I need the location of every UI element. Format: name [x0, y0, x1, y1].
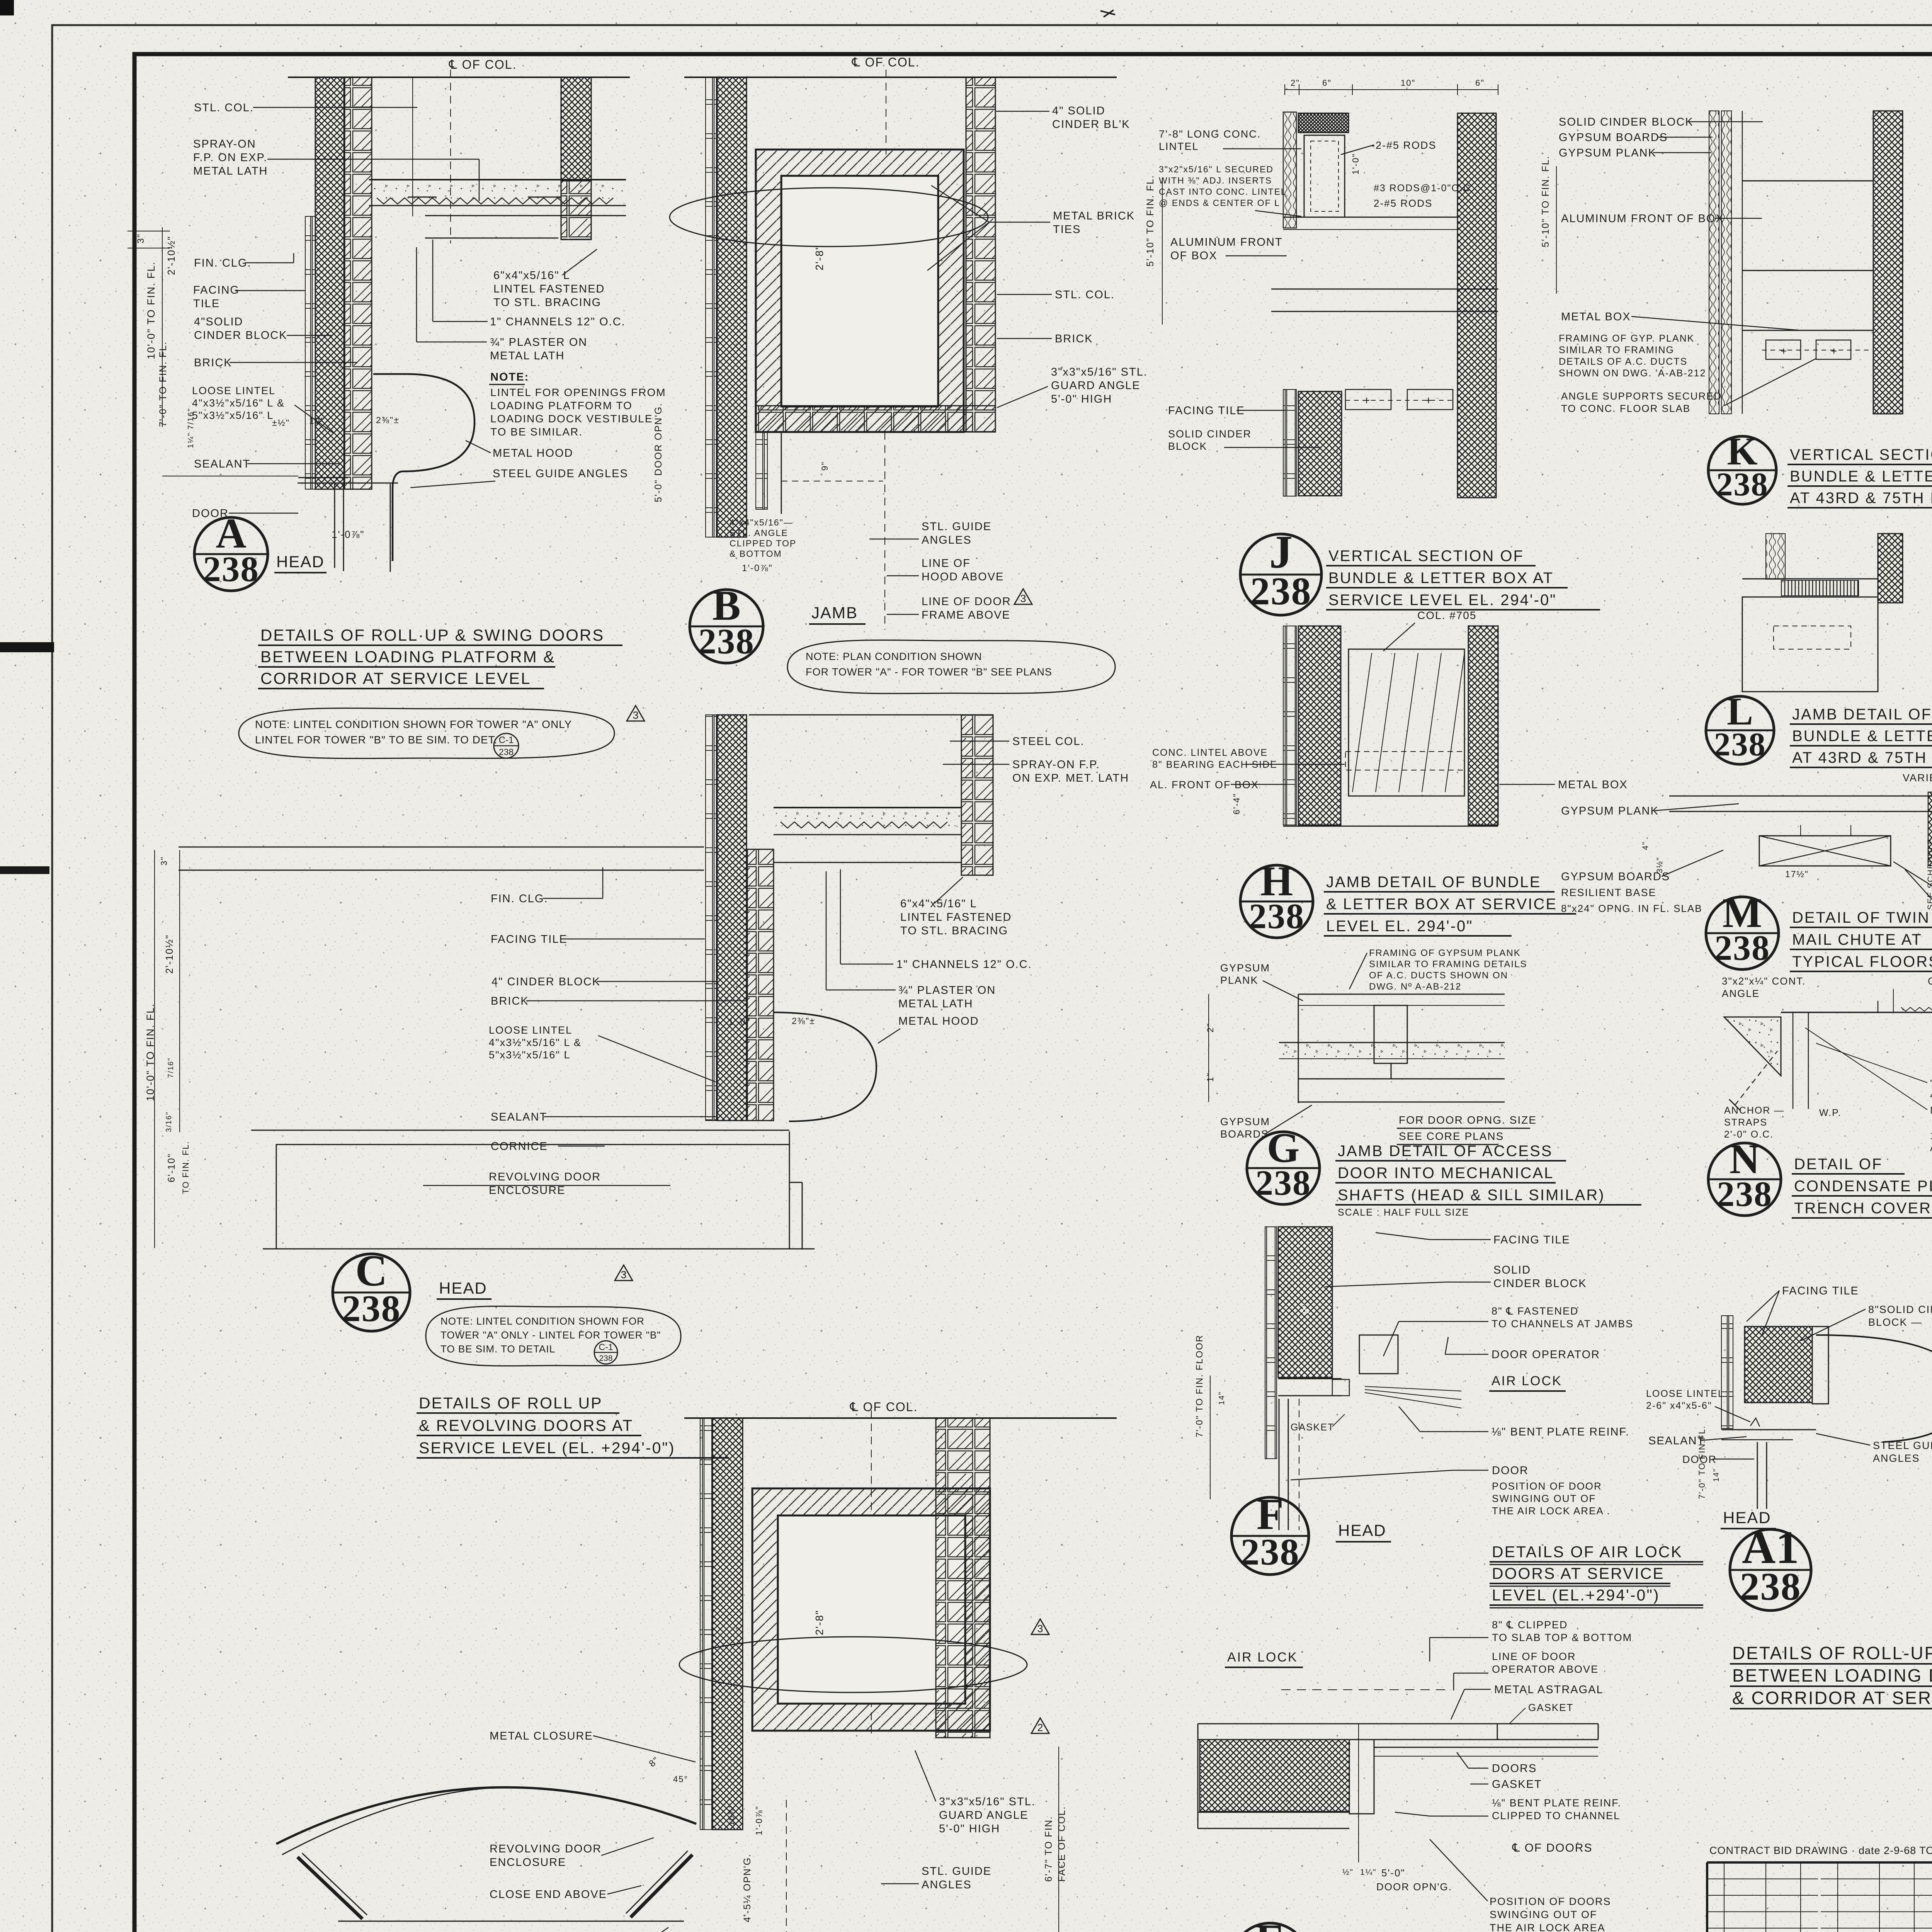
svg-text:3½": 3½" [1655, 857, 1664, 873]
svg-text:238: 238 [342, 1288, 401, 1330]
svg-text:℄ OF COL.: ℄ OF COL. [850, 1400, 918, 1414]
svg-text:NOTE: PLAN CONDITION SHOWN: NOTE: PLAN CONDITION SHOWN [806, 651, 982, 662]
svg-text:14": 14" [1218, 1391, 1226, 1405]
svg-text:5'-0" HIGH: 5'-0" HIGH [939, 1823, 1000, 1835]
svg-text:TO STL. BRACING: TO STL. BRACING [493, 296, 601, 309]
svg-text:238: 238 [1740, 1565, 1801, 1609]
svg-text:OF A.C. DUCTS SHOWN ON: OF A.C. DUCTS SHOWN ON [1369, 970, 1508, 981]
svg-text:SWINGING OUT OF: SWINGING OUT OF [1490, 1909, 1597, 1920]
svg-text:FOR TOWER "A" - FOR TOWER "B": FOR TOWER "A" - FOR TOWER "B" SEE PLANS [806, 666, 1052, 678]
svg-text:6": 6" [1322, 78, 1332, 88]
svg-text:LINTEL FOR TOWER "B" TO BE SIM: LINTEL FOR TOWER "B" TO BE SIM. TO DET. [255, 734, 497, 746]
svg-text:238: 238 [1249, 896, 1304, 936]
svg-text:DOOR OPERATOR: DOOR OPERATOR [1492, 1349, 1600, 1361]
svg-text:GUARD ANGLE: GUARD ANGLE [1051, 379, 1141, 392]
svg-text:3: 3 [1037, 1623, 1043, 1634]
svg-text:⅛" BENT PLATE REINF.: ⅛" BENT PLATE REINF. [1492, 1426, 1629, 1438]
svg-text:SEE SCHEDULE: SEE SCHEDULE [1926, 838, 1932, 910]
svg-text:TOWER "A" ONLY - LINTEL FOR TO: TOWER "A" ONLY - LINTEL FOR TOWER "B" [440, 1329, 661, 1341]
svg-text:FRAME ABOVE: FRAME ABOVE [922, 609, 1010, 621]
svg-text:W.P.: W.P. [1819, 1107, 1842, 1118]
svg-text:LINTEL: LINTEL [1159, 141, 1199, 152]
svg-text:JAMB DETAIL OF: JAMB DETAIL OF [1792, 706, 1932, 723]
svg-text:SOLID: SOLID [1493, 1264, 1531, 1276]
svg-text:7'-8" LONG CONC.: 7'-8" LONG CONC. [1159, 128, 1261, 140]
svg-text:DETAIL OF: DETAIL OF [1794, 1156, 1883, 1173]
svg-text:7'-0" TO FIN. FL.: 7'-0" TO FIN. FL. [158, 341, 168, 427]
svg-text:+: + [1831, 345, 1838, 357]
svg-text:CINDER BLOCK: CINDER BLOCK [1493, 1277, 1587, 1290]
svg-text:10'-0" TO FIN. FL.: 10'-0" TO FIN. FL. [145, 261, 157, 359]
svg-text:NOTE: LINTEL CONDITION SHOWN F: NOTE: LINTEL CONDITION SHOWN FOR TOWER "… [255, 718, 572, 730]
svg-text:⅛" BENT PLATE REINF.: ⅛" BENT PLATE REINF. [1492, 1797, 1621, 1809]
svg-text:TO BE SIM. TO DETAIL: TO BE SIM. TO DETAIL [440, 1343, 555, 1355]
svg-text:14": 14" [1712, 1468, 1721, 1482]
svg-text:FIN. CLG.: FIN. CLG. [194, 257, 252, 269]
svg-text:4'-0" O.C.: 4'-0" O.C. [1930, 1090, 1932, 1101]
svg-text:AIR LOCK: AIR LOCK [1227, 1650, 1298, 1665]
svg-text:FACING TILE: FACING TILE [1168, 405, 1245, 417]
svg-text:METAL HOOD: METAL HOOD [898, 1015, 979, 1027]
svg-text:3"x3"x5/16" STL.: 3"x3"x5/16" STL. [1051, 366, 1148, 378]
svg-text:SERVICE LEVEL (EL. +294'-0"): SERVICE LEVEL (EL. +294'-0") [419, 1439, 675, 1457]
svg-text:6": 6" [1475, 78, 1485, 88]
svg-text:4'-5¼ OPN'G.: 4'-5¼ OPN'G. [742, 1854, 753, 1922]
svg-text:SPRAY-ON F.P.: SPRAY-ON F.P. [1012, 759, 1100, 771]
svg-text:GYPSUM: GYPSUM [1220, 1116, 1270, 1128]
svg-text:SHOWN ON DWG. 'A-AB-212: SHOWN ON DWG. 'A-AB-212 [1559, 368, 1706, 379]
svg-text:RESILIENT BASE: RESILIENT BASE [1561, 887, 1656, 898]
svg-text:DOOR INTO MECHANICAL: DOOR INTO MECHANICAL [1338, 1165, 1554, 1182]
svg-text:CONTRACT BID DRAWING · da: CONTRACT BID DRAWING · date 2-9-68 TOWER… [1709, 1845, 1932, 1856]
svg-text:BLOCK: BLOCK [1168, 440, 1207, 452]
svg-text:STL. COL.: STL. COL. [194, 102, 254, 114]
svg-text:7'-0" TO FIN. FLOOR: 7'-0" TO FIN. FLOOR [1194, 1335, 1205, 1437]
svg-text:LOOSE LINTEL: LOOSE LINTEL [1646, 1388, 1724, 1399]
svg-text:1'-0⅞": 1'-0⅞" [742, 563, 773, 573]
svg-text:C-1: C-1 [499, 735, 514, 745]
svg-text:ANGLE: ANGLE [1722, 988, 1760, 999]
svg-text:STRAPS: STRAPS [1724, 1117, 1767, 1128]
svg-text:ANGLE SUPPORTS SECURED: ANGLE SUPPORTS SECURED [1561, 390, 1722, 402]
svg-text:GASKET: GASKET [1291, 1422, 1334, 1433]
svg-text:JAMB DETAIL OF BUNDLE: JAMB DETAIL OF BUNDLE [1326, 874, 1541, 891]
svg-text:238: 238 [1250, 570, 1312, 613]
svg-text:1'-0": 1'-0" [728, 1017, 750, 1027]
svg-text:STL. COL.: STL. COL. [1055, 289, 1115, 301]
svg-text:4"x3½"x5/16" L &: 4"x3½"x5/16" L & [489, 1037, 582, 1048]
svg-text:CLOSE END ABOVE: CLOSE END ABOVE [490, 1888, 607, 1901]
svg-text:3: 3 [633, 709, 638, 721]
svg-text:TO BE SIMILAR.: TO BE SIMILAR. [490, 426, 583, 438]
svg-text:238: 238 [1255, 1163, 1311, 1202]
svg-text:4": 4" [1641, 841, 1650, 850]
svg-text:BETWEEN LOADING PLATFORM &: BETWEEN LOADING PLATFORM & [260, 648, 555, 666]
svg-text:METAL LATH: METAL LATH [490, 350, 565, 362]
svg-text:LINTEL FASTENED: LINTEL FASTENED [493, 283, 605, 295]
svg-text:VERTICAL SECTION OF: VERTICAL SECTION OF [1328, 548, 1524, 565]
svg-text:℄ OF DOORS: ℄ OF DOORS [1512, 1842, 1593, 1854]
svg-text:METAL BOX: METAL BOX [1561, 311, 1631, 323]
svg-text:10¾": 10¾" [727, 1804, 736, 1826]
svg-text:METAL LATH: METAL LATH [898, 998, 973, 1010]
svg-text:SOLID CINDER: SOLID CINDER [1168, 428, 1252, 440]
svg-text:GYPSUM PLANK: GYPSUM PLANK [1561, 805, 1659, 817]
svg-text:SEALANT: SEALANT [1648, 1435, 1705, 1447]
svg-text:BRICK: BRICK [491, 995, 529, 1007]
svg-text:OPERATOR ABOVE: OPERATOR ABOVE [1492, 1663, 1599, 1675]
svg-text:2'-8": 2'-8" [813, 245, 825, 270]
svg-text:HEAD: HEAD [439, 1279, 487, 1297]
svg-text:REVOLVING DOOR: REVOLVING DOOR [490, 1843, 602, 1855]
svg-text:HEAD: HEAD [1338, 1521, 1386, 1539]
svg-text:METAL CLOSURE: METAL CLOSURE [490, 1730, 593, 1742]
svg-text:LOOSE LINTEL: LOOSE LINTEL [192, 385, 276, 396]
svg-text:BETWEEN LOADING DOCK VESTIBULE: BETWEEN LOADING DOCK VESTIBULE [1732, 1665, 1932, 1685]
svg-text:TO SLAB TOP & BOTTOM: TO SLAB TOP & BOTTOM [1492, 1632, 1632, 1643]
svg-text:¾" PLASTER ON: ¾" PLASTER ON [898, 984, 996, 997]
svg-text:DOORS AT SERVICE: DOORS AT SERVICE [1492, 1565, 1665, 1582]
svg-text:FRAMING OF GYPSUM PLANK: FRAMING OF GYPSUM PLANK [1369, 948, 1521, 958]
svg-text:FACING TILE: FACING TILE [1493, 1234, 1570, 1246]
svg-text:4"SOLID: 4"SOLID [194, 316, 243, 328]
svg-text:3/16": 3/16" [165, 1111, 173, 1132]
svg-text:2-#5 RODS: 2-#5 RODS [1374, 197, 1432, 209]
svg-text:9": 9" [820, 461, 830, 471]
svg-text:FIN. CLG.: FIN. CLG. [491, 893, 548, 905]
svg-text:5"x3½"x5/16" L: 5"x3½"x5/16" L [489, 1049, 570, 1061]
svg-text:TYPICAL FLOORS: TYPICAL FLOORS [1792, 953, 1932, 970]
svg-text:WITH ⅜" ADJ. INSERTS: WITH ⅜" ADJ. INSERTS [1159, 175, 1272, 185]
svg-text:4"x4"x5/16"—: 4"x4"x5/16"— [730, 517, 793, 527]
svg-text:C-1: C-1 [599, 1342, 613, 1352]
svg-text:& CORRIDOR AT SERVICE LEVEL: & CORRIDOR AT SERVICE LEVEL [1732, 1688, 1932, 1708]
svg-text:ANGLES: ANGLES [922, 1879, 972, 1891]
svg-text:1" CHANNELS 12" O.C.: 1" CHANNELS 12" O.C. [490, 316, 626, 328]
svg-text:VERTICAL SECTION OF: VERTICAL SECTION OF [1790, 446, 1932, 463]
svg-text:3: 3 [621, 1269, 626, 1281]
svg-text:2'-10½": 2'-10½" [163, 934, 175, 974]
svg-text:7/16": 7/16" [167, 1057, 175, 1078]
svg-text:BUNDLE & LETTER BOX AT: BUNDLE & LETTER BOX AT [1328, 570, 1554, 587]
svg-text:2: 2 [1037, 1722, 1043, 1733]
svg-text:±½": ±½" [272, 418, 290, 428]
svg-text:BRICK: BRICK [194, 357, 232, 369]
svg-text:238: 238 [203, 549, 259, 589]
svg-text:POSITION OF DOORS: POSITION OF DOORS [1490, 1896, 1611, 1907]
svg-text:ANGLES: ANGLES [1873, 1452, 1920, 1464]
svg-text:FACING TILE: FACING TILE [1782, 1285, 1859, 1297]
svg-text:DETAILS OF A.C. DUCTS: DETAILS OF A.C. DUCTS [1559, 356, 1687, 367]
svg-text:CHECKERED: CHECKERED [1928, 975, 1932, 987]
svg-text:HEAD: HEAD [276, 553, 325, 571]
svg-text:4" SOLID: 4" SOLID [1052, 105, 1105, 117]
svg-text:LOADING DOCK VESTIBULE: LOADING DOCK VESTIBULE [490, 413, 653, 425]
svg-text:E: E [1255, 1915, 1285, 1932]
svg-text:1¼": 1¼" [1360, 1868, 1377, 1877]
svg-text:BLOCK —: BLOCK — [1868, 1316, 1922, 1328]
svg-text:8"x24" OPNG. IN FL. SLAB: 8"x24" OPNG. IN FL. SLAB [1561, 903, 1702, 914]
svg-text:3: 3 [1020, 593, 1026, 604]
svg-text:TO CONC. FLOOR SLAB: TO CONC. FLOOR SLAB [1561, 403, 1690, 414]
svg-text:6'-7" TO FIN.: 6'-7" TO FIN. [1043, 1816, 1054, 1882]
svg-text:DOOR: DOOR [1492, 1464, 1529, 1477]
svg-text:SHAFTS (HEAD & SILL SIMILAR): SHAFTS (HEAD & SILL SIMILAR) [1338, 1187, 1605, 1204]
svg-text:5'-10" TO FIN. FL.: 5'-10" TO FIN. FL. [1540, 155, 1551, 247]
svg-text:1½"x1½"x¼" CONT.: 1½"x1½"x¼" CONT. [1930, 1131, 1932, 1141]
svg-text:TRENCH COVER ℞.: TRENCH COVER ℞. [1794, 1200, 1932, 1217]
svg-text:STL. GUIDE: STL. GUIDE [922, 520, 992, 533]
svg-text:5'-0": 5'-0" [1381, 1867, 1405, 1879]
svg-text:238: 238 [1717, 1174, 1772, 1214]
svg-text:SEE CORE PLANS: SEE CORE PLANS [1399, 1130, 1504, 1142]
svg-text:METAL HOOD: METAL HOOD [493, 447, 573, 459]
svg-text:3"x3"x5/16" STL.: 3"x3"x5/16" STL. [939, 1796, 1036, 1808]
svg-text:STEEL GUIDE ANGLES: STEEL GUIDE ANGLES [493, 468, 628, 480]
svg-text:8" ℄ CLIPPED: 8" ℄ CLIPPED [1492, 1619, 1568, 1631]
svg-text:SEALANT: SEALANT [194, 458, 250, 470]
svg-text:SCALE : HALF FULL SIZE: SCALE : HALF FULL SIZE [1338, 1207, 1469, 1218]
svg-text:-2-#5 RODS: -2-#5 RODS [1371, 139, 1437, 151]
svg-text:REVOLVING DOOR: REVOLVING DOOR [489, 1171, 601, 1183]
svg-text:DETAILS OF ROLL UP: DETAILS OF ROLL UP [419, 1394, 603, 1412]
svg-text:NOTE: LINTEL CONDITION SHOWN F: NOTE: LINTEL CONDITION SHOWN FOR [440, 1315, 645, 1327]
svg-text:ANCHOR —: ANCHOR — [1724, 1105, 1784, 1116]
svg-text:TIES: TIES [1053, 223, 1081, 236]
svg-text:5"x3½"x5/16" L: 5"x3½"x5/16" L [192, 410, 274, 421]
svg-text:SERVICE LEVEL EL. 294'-0": SERVICE LEVEL EL. 294'-0" [1328, 592, 1556, 609]
svg-text:BRICK: BRICK [1055, 333, 1093, 345]
svg-text:JAMB: JAMB [811, 604, 858, 622]
svg-text:THE AIR LOCK AREA .: THE AIR LOCK AREA . [1492, 1505, 1611, 1517]
svg-text:FRAMING OF GYP. PLANK: FRAMING OF GYP. PLANK [1559, 333, 1694, 344]
svg-text:8"SOLID CINDER: 8"SOLID CINDER [1868, 1304, 1932, 1315]
svg-text:SWINGING OUT OF: SWINGING OUT OF [1492, 1493, 1596, 1504]
svg-text:238: 238 [599, 1354, 612, 1363]
svg-text:PLANK: PLANK [1220, 975, 1259, 986]
svg-text:FACING TILE: FACING TILE [491, 933, 568, 946]
svg-text:GYPSUM PLANK: GYPSUM PLANK [1559, 147, 1656, 159]
svg-text:THE AIR LOCK AREA: THE AIR LOCK AREA [1490, 1922, 1605, 1932]
svg-text:CINDER BLOCK: CINDER BLOCK [194, 329, 287, 342]
svg-text:1'-0⅞": 1'-0⅞" [332, 529, 364, 540]
svg-text:#3 RODS@1-0"O.C.: #3 RODS@1-0"O.C. [1374, 183, 1475, 194]
svg-text:10": 10" [309, 416, 325, 426]
svg-text:6'-4": 6'-4" [1231, 793, 1242, 815]
svg-text:SIMILAR TO FRAMING: SIMILAR TO FRAMING [1559, 345, 1674, 355]
svg-text:NOTE:: NOTE: [490, 371, 529, 383]
svg-text:4"x3½"x5/16" L &: 4"x3½"x5/16" L & [192, 397, 285, 409]
svg-text:8" ℄ FASTENED: 8" ℄ FASTENED [1492, 1305, 1578, 1317]
svg-text:BUNDLE & LETTER BOXES: BUNDLE & LETTER BOXES [1790, 468, 1932, 485]
svg-text:238: 238 [1241, 1531, 1300, 1573]
svg-text:DETAIL OF TWIN: DETAIL OF TWIN [1792, 909, 1930, 926]
svg-text:METAL BOX: METAL BOX [1558, 779, 1628, 791]
svg-text:FACE OF COL.: FACE OF COL. [1056, 1806, 1067, 1882]
svg-text:DOORS: DOORS [1492, 1762, 1537, 1775]
svg-text:1'-0": 1'-0" [1350, 153, 1361, 175]
svg-text:FOR DOOR OPNG. SIZE: FOR DOOR OPNG. SIZE [1399, 1114, 1537, 1126]
svg-text:238: 238 [1716, 466, 1769, 503]
svg-text:METAL LATH: METAL LATH [193, 165, 268, 177]
svg-text:DETAILS OF ROLL·UP & SWING DOO: DETAILS OF ROLL·UP & SWING DOORS [260, 626, 604, 644]
svg-text:ALUMINUM FRONT: ALUMINUM FRONT [1170, 236, 1283, 248]
svg-text:4" CINDER BLOCK: 4" CINDER BLOCK [492, 976, 600, 988]
svg-text:AT 43RD & 75TH FLOORS: AT 43RD & 75TH FLOORS [1792, 749, 1932, 766]
svg-text:JAMB DETAIL OF ACCESS: JAMB DETAIL OF ACCESS [1338, 1143, 1553, 1160]
svg-text:6'-10": 6'-10" [166, 1153, 177, 1182]
svg-text:238: 238 [1714, 928, 1770, 968]
svg-text:CAST INTO CONC. LINTEL: CAST INTO CONC. LINTEL [1159, 187, 1287, 197]
svg-text:ON EXP. MET. LATH: ON EXP. MET. LATH [1012, 772, 1129, 784]
svg-text:2⅜"±: 2⅜"± [792, 1016, 815, 1026]
svg-text:SOLID CINDER BLOCK: SOLID CINDER BLOCK [1559, 116, 1694, 128]
svg-text:'T' SUPPORTS: 'T' SUPPORTS [1930, 1078, 1932, 1089]
svg-text:LEVEL EL. 294'-0": LEVEL EL. 294'-0" [1326, 918, 1473, 935]
svg-text:3": 3" [136, 233, 146, 243]
svg-text:+: + [1781, 345, 1787, 357]
svg-text:½": ½" [1342, 1868, 1354, 1877]
svg-text:LINE OF: LINE OF [922, 557, 971, 570]
svg-text:GASKET: GASKET [1492, 1778, 1542, 1791]
svg-text:GYPSUM BOARDS: GYPSUM BOARDS [1561, 871, 1670, 883]
svg-text:5'-0" DOOR OPN'G.: 5'-0" DOOR OPN'G. [653, 403, 664, 502]
svg-text:TO FIN. FL.: TO FIN. FL. [181, 1141, 190, 1194]
svg-text:TO STL. BRACING: TO STL. BRACING [900, 925, 1008, 937]
svg-text:ENCLOSURE: ENCLOSURE [489, 1184, 566, 1197]
svg-text:2-6" x4"x5-6": 2-6" x4"x5-6" [1646, 1400, 1712, 1411]
svg-text:3"x2"x¼" CONT.: 3"x2"x¼" CONT. [1722, 975, 1806, 987]
svg-text:FACING: FACING [193, 284, 240, 296]
svg-text:& REVOLVING DOORS AT: & REVOLVING DOORS AT [419, 1417, 633, 1434]
svg-text:METAL ASTRAGAL: METAL ASTRAGAL [1494, 1684, 1604, 1696]
svg-text:CORNICE: CORNICE [491, 1140, 548, 1153]
svg-text:CLIPPED TO CHANNEL: CLIPPED TO CHANNEL [1492, 1810, 1620, 1821]
svg-text:3": 3" [159, 856, 169, 866]
svg-text:CORRIDOR AT SERVICE LEVEL: CORRIDOR AT SERVICE LEVEL [260, 669, 531, 687]
svg-text:17½": 17½" [1785, 869, 1809, 879]
svg-text:5'-0" HIGH: 5'-0" HIGH [1051, 393, 1112, 405]
svg-text:ANGLES: ANGLES [922, 534, 972, 546]
svg-text:DWG. Nº A-AB-212: DWG. Nº A-AB-212 [1369, 981, 1461, 992]
svg-text:ENCLOSURE: ENCLOSURE [490, 1856, 566, 1869]
svg-text:6"x4"x5/16" L: 6"x4"x5/16" L [493, 269, 570, 282]
svg-text:GASKET: GASKET [1528, 1702, 1573, 1713]
svg-text:TO CHANNELS AT JAMBS: TO CHANNELS AT JAMBS [1492, 1318, 1633, 1330]
svg-text:2⅜"±: 2⅜"± [376, 415, 400, 425]
svg-text:SPRAY-ON: SPRAY-ON [193, 138, 256, 150]
svg-text:2": 2" [1291, 78, 1300, 88]
svg-text:STEEL GUIDE: STEEL GUIDE [1873, 1440, 1932, 1451]
svg-text:2'-8": 2'-8" [813, 1610, 825, 1635]
svg-text:LINTEL FOR OPENINGS FROM: LINTEL FOR OPENINGS FROM [490, 386, 666, 398]
svg-text:10'-0" TO FIN. FL.: 10'-0" TO FIN. FL. [145, 1003, 156, 1101]
svg-text:CINDER BL'K: CINDER BL'K [1052, 118, 1130, 131]
svg-text:GYPSUM: GYPSUM [1220, 962, 1270, 974]
svg-text:LINE OF DOOR: LINE OF DOOR [1492, 1651, 1576, 1662]
svg-text:DETAILS OF AIR LOCK: DETAILS OF AIR LOCK [1492, 1543, 1683, 1561]
svg-text:2'-10½": 2'-10½" [165, 236, 177, 275]
svg-text:SIMILAR TO FRAMING DETAILS: SIMILAR TO FRAMING DETAILS [1369, 959, 1527, 969]
svg-text:LOOSE LINTEL: LOOSE LINTEL [489, 1024, 572, 1036]
svg-text:ALUMINUM FRONT OF BOX: ALUMINUM FRONT OF BOX [1561, 213, 1724, 225]
svg-text:2": 2" [1205, 1023, 1215, 1032]
svg-text:METAL BRICK: METAL BRICK [1053, 210, 1135, 222]
svg-text:10": 10" [1401, 78, 1415, 88]
svg-text:ANGLE: ANGLE [1930, 1143, 1932, 1153]
svg-text:STL. GUIDE: STL. GUIDE [922, 1865, 992, 1878]
svg-text:@ ENDS & CENTER OF L: @ ENDS & CENTER OF L [1159, 198, 1280, 208]
svg-text:238: 238 [698, 622, 755, 662]
svg-text:1'-0⅞": 1'-0⅞" [754, 1806, 764, 1835]
svg-text:F.P. ON EXP.: F.P. ON EXP. [193, 151, 267, 164]
svg-text:DETAILS OF ROLL-UP & SWING DOO: DETAILS OF ROLL-UP & SWING DOORS [1732, 1643, 1932, 1663]
svg-text:& LETTER BOX AT SERVICE: & LETTER BOX AT SERVICE [1326, 896, 1557, 913]
svg-text:LOADING PLATFORM TO: LOADING PLATFORM TO [490, 400, 633, 412]
svg-text:STEEL COL.: STEEL COL. [1012, 735, 1085, 748]
svg-text:238: 238 [499, 747, 514, 757]
svg-text:238: 238 [1714, 726, 1766, 763]
svg-text:℄ OF COL.: ℄ OF COL. [449, 58, 517, 71]
svg-text:1": 1" [1205, 1072, 1215, 1082]
svg-text:DOOR: DOOR [1682, 1454, 1717, 1465]
svg-text:8": 8" [1300, 1303, 1311, 1314]
svg-text:& BOTTOM: & BOTTOM [730, 549, 782, 559]
svg-text:NEOPRENE: NEOPRENE [1930, 1105, 1932, 1116]
svg-text:3"x2"x5/16" L SECURED: 3"x2"x5/16" L SECURED [1159, 164, 1274, 174]
svg-text:1" CHANNELS 12" O.C.: 1" CHANNELS 12" O.C. [896, 958, 1032, 971]
svg-text:CONDENSATE PIT: CONDENSATE PIT [1794, 1178, 1932, 1195]
svg-text:HOOD ABOVE: HOOD ABOVE [922, 571, 1004, 583]
svg-text:AT 43RD & 75TH FLOORS: AT 43RD & 75TH FLOORS [1790, 490, 1932, 507]
svg-text:SEALANT: SEALANT [491, 1111, 547, 1123]
svg-text:CLIPPED TOP: CLIPPED TOP [730, 538, 796, 548]
svg-text:LEVEL (EL.+294'-0"): LEVEL (EL.+294'-0") [1492, 1586, 1660, 1604]
svg-text:GUARD ANGLE: GUARD ANGLE [939, 1809, 1029, 1821]
svg-text:DOOR OPN'G.: DOOR OPN'G. [1376, 1881, 1452, 1893]
svg-text:CONC. LINTEL ABOVE: CONC. LINTEL ABOVE [1152, 747, 1268, 758]
svg-text:℄ OF COL.: ℄ OF COL. [852, 55, 920, 69]
svg-text:LINE OF DOOR: LINE OF DOOR [922, 595, 1011, 608]
svg-text:LINTEL FASTENED: LINTEL FASTENED [900, 911, 1012, 923]
svg-text:MAIL CHUTE AT: MAIL CHUTE AT [1792, 931, 1922, 948]
svg-text:AIR LOCK: AIR LOCK [1492, 1374, 1562, 1388]
svg-text:STL. ANGLE: STL. ANGLE [730, 528, 788, 538]
svg-text:OF BOX: OF BOX [1170, 250, 1218, 262]
svg-text:GYPSUM BOARDS: GYPSUM BOARDS [1559, 131, 1668, 144]
svg-text:45°: 45° [673, 1774, 688, 1784]
svg-text:¾" PLASTER ON: ¾" PLASTER ON [490, 336, 587, 349]
svg-text:TILE: TILE [193, 298, 220, 310]
svg-text:VARIES: VARIES [1903, 772, 1932, 784]
svg-text:BUNDLE & LETTER BOXES: BUNDLE & LETTER BOXES [1792, 728, 1932, 745]
svg-text:5'-10" TO FIN. FL.: 5'-10" TO FIN. FL. [1145, 175, 1156, 267]
svg-text:COL. #705: COL. #705 [1417, 609, 1476, 621]
svg-text:POSITION OF DOOR: POSITION OF DOOR [1492, 1480, 1602, 1492]
